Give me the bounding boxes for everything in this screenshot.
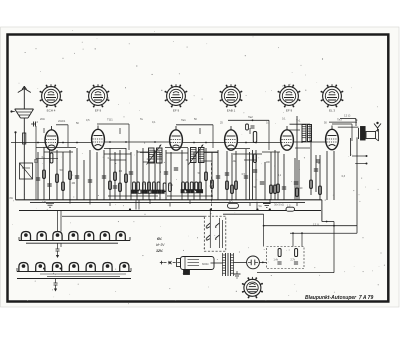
wire left branch	[15, 132, 17, 200]
svg-text:0,3: 0,3	[342, 175, 346, 178]
wire bundle: middle band vertical wires	[38, 116, 358, 200]
svg-text:0,5: 0,5	[242, 173, 246, 176]
tube socket top-view U6 (EL 3)	[321, 84, 344, 112]
coil L4	[308, 125, 312, 142]
svg-text:8Ω: 8Ω	[10, 197, 13, 200]
svg-text:5A: 5A	[259, 204, 262, 208]
terminal strip 1 bar	[19, 237, 130, 243]
svg-text:EAB 1: EAB 1	[227, 108, 236, 112]
tube V2	[92, 126, 105, 150]
svg-text:Ta3: Ta3	[337, 118, 342, 122]
ground symbol near V1	[42, 201, 54, 207]
buffer capacitor circle	[234, 256, 267, 269]
svg-text:EF 9: EF 9	[286, 108, 293, 112]
antenna coil L1 (trapezoid)	[10, 109, 33, 118]
svg-text:1M: 1M	[119, 170, 122, 173]
svg-text:0,2: 0,2	[210, 185, 214, 188]
label and wire above V1	[56, 119, 68, 147]
svg-text:12V.: 12V.	[156, 249, 163, 253]
ground under transformer	[234, 271, 241, 278]
svg-text:12 V: 12 V	[313, 222, 319, 226]
bus component stubs	[69, 199, 297, 207]
resistor under V1 cathode	[50, 153, 53, 163]
label and wire above V3	[176, 118, 213, 148]
tube V5	[281, 126, 294, 150]
trimmer C2	[34, 159, 38, 161]
coil L3	[302, 125, 306, 142]
svg-text:Blaupunkt-Autosuper 7 A 79: Blaupunkt-Autosuper 7 A 79	[305, 295, 373, 301]
fuse on bus	[228, 199, 239, 208]
svg-text:6V.: 6V.	[157, 237, 162, 241]
wire: riser to dashes	[223, 214, 265, 246]
svg-text:Ta1: Ta1	[181, 118, 186, 122]
svg-text:600Ω: 600Ω	[202, 262, 209, 266]
terminal strip 2 (7 lugs)	[19, 263, 129, 272]
gang link dashed line	[211, 163, 213, 210]
supply wire dash-dot	[164, 261, 181, 264]
speaker	[366, 129, 379, 141]
speck noise	[12, 30, 385, 304]
dashed resistor unit box	[267, 247, 305, 269]
capacitor C1	[31, 120, 39, 127]
IF transformer T2a	[191, 148, 197, 163]
chassis bus line 3	[19, 210, 321, 212]
schematic border frame	[8, 35, 389, 302]
resistor R1	[23, 133, 26, 144]
wire stub with capacitor below strip2	[43, 268, 62, 292]
parts near V4 grid	[246, 119, 255, 130]
strip1 riser wires	[58, 211, 62, 232]
svg-text:2Ω01: 2Ω01	[58, 119, 66, 123]
band switch contact rows	[132, 190, 203, 194]
svg-text:30+3 kΩ: 30+3 kΩ	[274, 203, 284, 207]
svg-text:EF 9: EF 9	[95, 108, 102, 112]
svg-text:bf~3V: bf~3V	[156, 243, 165, 247]
svg-text:12 Ω: 12 Ω	[344, 114, 351, 118]
svg-text:0,1: 0,1	[266, 122, 270, 125]
IF transformer T2b	[199, 148, 205, 163]
svg-text:140: 140	[42, 201, 47, 204]
terminal strip 2 bars	[17, 268, 131, 279]
wire jog left	[36, 157, 58, 159]
tube socket top-view U4 (EAB 1)	[220, 84, 243, 112]
wires below tube row	[36, 148, 310, 153]
capacitors in middle band	[36, 160, 320, 189]
svg-text:20Ω: 20Ω	[40, 118, 45, 121]
component value labels	[42, 156, 346, 190]
svg-text:2M: 2M	[72, 182, 75, 185]
IF transformer T1a	[149, 148, 155, 163]
chassis bus line 2	[30, 202, 305, 204]
label and wire above V6	[332, 118, 352, 142]
power transformer Tr	[211, 253, 234, 276]
filter choke cylinder	[164, 257, 215, 275]
label and wire above V4	[228, 115, 269, 150]
tube V1	[45, 126, 58, 150]
svg-text:EF 9: EF 9	[173, 108, 180, 112]
svg-text:0,1: 0,1	[152, 121, 156, 124]
vibrator unit dashed box	[204, 210, 226, 252]
tube V6	[326, 126, 339, 150]
supply terminal mark	[160, 261, 163, 265]
svg-text:Ta2: Ta2	[248, 115, 253, 119]
svg-text:0,5: 0,5	[108, 157, 112, 160]
fuse capsule 2	[286, 204, 295, 211]
right side wiring loop	[257, 137, 357, 272]
tube socket top-view U1 (ECH 4)	[40, 84, 63, 112]
resistor R at V4 anode	[253, 132, 256, 143]
ground symbol mid bus	[263, 204, 271, 208]
IF transformer T1b	[157, 148, 163, 163]
tuning arrow through T2	[189, 144, 204, 164]
chassis bus line 1	[16, 199, 322, 201]
tube V4	[225, 126, 238, 150]
extra top-row marks	[44, 121, 327, 134]
wire stub	[257, 202, 262, 210]
terminal strip 1 (7 lugs)	[21, 232, 125, 241]
node dot	[14, 131, 16, 133]
signal path wires at tube level	[11, 141, 326, 143]
svg-text:0,1: 0,1	[278, 174, 282, 177]
tube socket top-view U5 (EF 9)	[278, 84, 301, 112]
speaker secondary stubs	[352, 155, 368, 165]
antenna	[18, 86, 31, 109]
svg-text:0,1: 0,1	[282, 118, 286, 121]
wire antenna down	[23, 118, 25, 200]
wire stub with capacitor below strip1	[56, 243, 62, 258]
label and wire above V5	[290, 119, 311, 142]
speaker jack symbol	[374, 122, 381, 132]
wire speaker feed	[340, 114, 356, 127]
tube socket top-view U3 (EF 9)	[165, 84, 188, 112]
svg-text:ECH 4: ECH 4	[47, 108, 56, 112]
svg-text:0,1: 0,1	[170, 184, 174, 187]
tuning arrow through T1	[147, 144, 162, 164]
svg-text:0,1: 0,1	[42, 156, 46, 159]
bus junction dots	[129, 208, 271, 210]
wires crossing bus	[136, 200, 139, 210]
label and wire above V2	[97, 118, 129, 151]
wire to vibrator box	[62, 215, 204, 217]
vibrator socket bottom view	[242, 277, 263, 299]
tube socket top-view U2 (EF 9)	[87, 84, 110, 112]
svg-text:0,5: 0,5	[86, 119, 90, 122]
svg-text:100: 100	[266, 161, 271, 164]
battery voltage labels	[156, 237, 165, 253]
svg-text:6Ω: 6Ω	[229, 199, 232, 203]
extra top-row marks 2	[40, 118, 358, 123]
tube V3	[170, 126, 183, 150]
resistors in middle band	[43, 154, 322, 197]
svg-text:EL 3: EL 3	[329, 108, 335, 112]
svg-text:TΩ1: TΩ1	[107, 118, 113, 122]
padder box	[20, 163, 33, 179]
wire	[35, 126, 37, 160]
output transformer dark bar	[359, 127, 366, 141]
